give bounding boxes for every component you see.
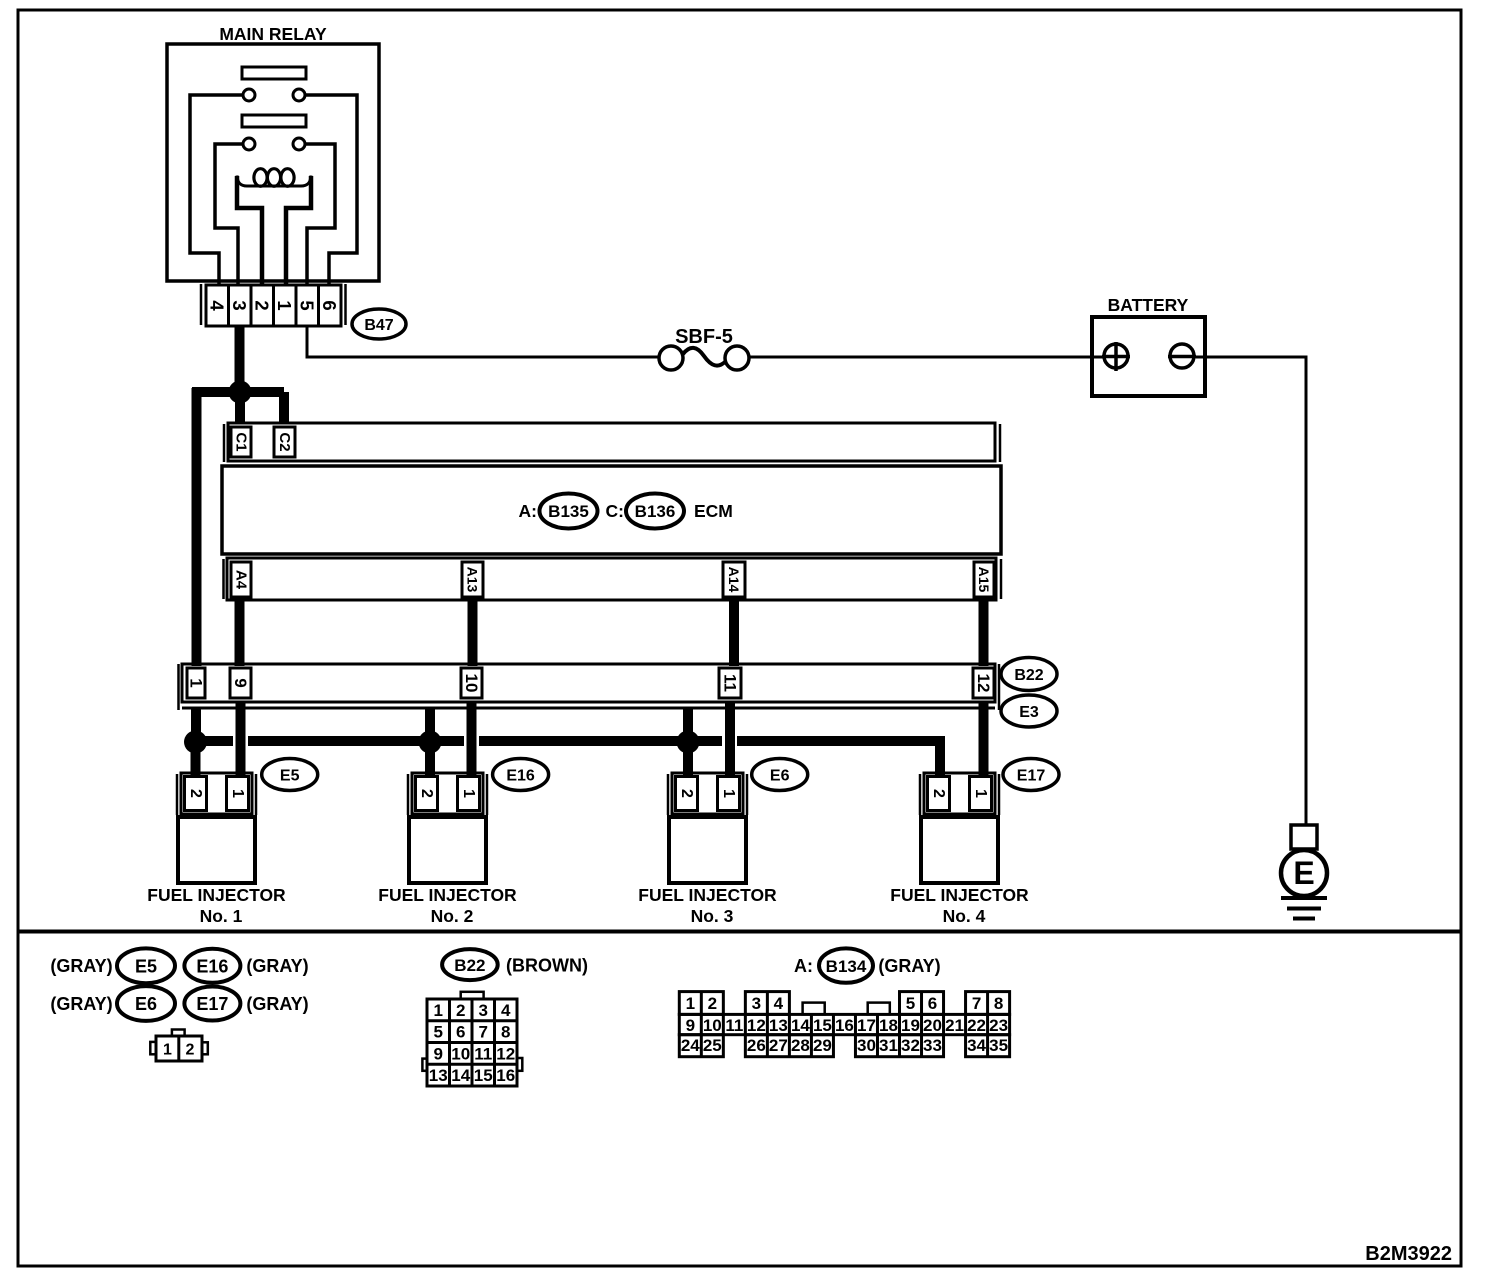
svg-text:31: 31 [879,1036,898,1055]
wire: upper-left contact to pin 4 [190,95,243,285]
svg-text:4: 4 [207,300,228,311]
bus junction node 2 [419,731,442,754]
main relay label [219,24,327,44]
svg-text:17: 17 [857,1016,876,1035]
fuel injector No. 3 label [638,885,777,926]
B22 pin 9 [434,1044,443,1063]
svg-text:E17: E17 [1017,768,1046,785]
svg-text:E3: E3 [1019,704,1039,721]
B134 pin 25 [703,1036,722,1055]
relay pin 6 [319,300,340,310]
fuel injector No. 2 label [378,885,517,926]
svg-text:E16: E16 [196,957,228,977]
B22 pin 4 [501,1001,511,1020]
svg-text:5: 5 [434,1023,443,1042]
svg-text:1: 1 [434,1001,443,1020]
B134 pin 26 [747,1036,766,1055]
svg-text:FUEL INJECTOR: FUEL INJECTOR [147,885,286,905]
svg-text:(GRAY): (GRAY) [246,994,308,1014]
B134 pin 24 [681,1036,700,1055]
legend (GRAY) label row1 right [246,956,308,976]
svg-text:(GRAY): (GRAY) [246,956,308,976]
B134 pin 21 [945,1016,964,1035]
fuel injector No. 3 [668,773,747,883]
B134 pin 11 [725,1016,743,1035]
svg-text:8: 8 [501,1023,510,1042]
B22 pin 2 [456,1001,465,1020]
svg-text:C2: C2 [276,432,293,451]
power bus segment 6 and corner to injector 4 pin 2 [737,741,940,775]
battery [1092,317,1205,396]
wire: lower-right contact to pin 5 [305,144,335,285]
fuel injector No. 1 label [147,885,286,926]
injector 1 pin 1 [229,789,246,798]
svg-text:E5: E5 [135,957,157,977]
svg-text:14: 14 [791,1016,810,1035]
B134 pin 1 [686,994,695,1013]
ground E [1281,825,1327,919]
B134 pin 7 [972,994,981,1013]
thick wire: junction horizontal bar [192,387,284,397]
ECM pin A13 [462,562,483,597]
relay pin 5 [297,300,318,310]
connector E16 label [493,759,549,791]
svg-text:15: 15 [813,1016,832,1035]
svg-text:C1: C1 [233,432,250,451]
thick wire: pin 10 to injector 2 pin 1 [467,702,477,775]
wire: upper-right contact to pin 6 [305,95,357,285]
svg-text:30: 30 [857,1036,876,1055]
connector B22/E3 strip [179,664,1000,710]
svg-text:A:: A: [794,956,813,976]
relay connector B47 pin strip [201,284,346,326]
B22 pin 15 [474,1066,493,1085]
svg-text:16: 16 [835,1016,854,1035]
relay contact bar 1 [242,67,306,79]
injector 2 pin 1 [460,789,477,798]
ECM connector A strip [224,558,1002,600]
B134 pin 15 [813,1016,832,1035]
thick wire: junction left branch down to connector pin 1 [192,388,202,666]
svg-text:A4: A4 [233,570,250,590]
svg-text:No. 4: No. 4 [943,906,986,926]
svg-text:E6: E6 [135,994,157,1014]
svg-text:B47: B47 [364,317,393,334]
connector E16 legend label [184,949,240,983]
B134 pin 10 [703,1016,722,1035]
svg-text:13: 13 [769,1016,788,1035]
injector 4 pin 1 [972,789,989,798]
ECM pin C2 [274,427,295,457]
svg-text:7: 7 [972,994,981,1013]
thick wire: pin 9 to injector 1 pin 1 [236,702,246,775]
svg-text:E5: E5 [280,768,300,785]
B22 pin 3 [479,1001,488,1020]
thick wire: junction to ECM pin C1 [235,392,245,424]
injector 2 pin 2 [418,789,435,798]
B134 pin 13 [769,1016,788,1035]
relay contact bar 2 [242,115,306,127]
thick wire: junction 2 to injector 2 pin 2 [425,750,435,775]
thick wire: A15 to connector pin 12 [979,600,989,666]
svg-text:SBF-5: SBF-5 [675,326,733,348]
svg-text:(BROWN): (BROWN) [506,956,588,976]
legend (GRAY) label row1 left [50,956,112,976]
connector E6 label [752,759,808,791]
svg-text:8: 8 [994,994,1003,1013]
relay coil [237,169,311,187]
svg-text:13: 13 [429,1066,448,1085]
B22 pin 10 [451,1044,470,1063]
svg-text:16: 16 [496,1066,515,1085]
B134 pin 30 [857,1036,876,1055]
B134 pin 34 [967,1036,986,1055]
svg-text:28: 28 [791,1036,810,1055]
B22 pin 11 [474,1044,492,1063]
B134 pin 27 [769,1036,788,1055]
svg-text:15: 15 [474,1066,493,1085]
connector B134 legend label [819,948,873,982]
svg-text:No. 1: No. 1 [200,906,243,926]
ECM label C: [606,501,624,521]
svg-text:34: 34 [967,1036,986,1055]
ECM body [222,466,1001,554]
svg-text:10: 10 [462,674,481,693]
svg-text:27: 27 [769,1036,788,1055]
connector pin 12 [973,668,994,698]
relay contact point (left, upper) [243,89,255,101]
legend divider line [18,930,1461,934]
svg-text:6: 6 [319,300,340,310]
connector pin 10 [461,668,482,698]
svg-text:11: 11 [721,674,740,692]
svg-text:3: 3 [752,994,761,1013]
svg-text:C:: C: [606,501,624,521]
fuel injector No. 4 label [890,885,1029,926]
fuel injector No. 2 [408,773,487,883]
ECM label [694,501,733,521]
svg-text:11: 11 [725,1016,743,1035]
connector E17 legend label [184,987,240,1021]
svg-text:25: 25 [703,1036,722,1055]
svg-text:12: 12 [974,674,993,693]
svg-text:6: 6 [928,994,937,1013]
svg-text:10: 10 [703,1016,722,1035]
svg-text:MAIN RELAY: MAIN RELAY [219,24,327,44]
connector pin 1 [187,668,206,698]
2-pin connector pin 2 [186,1042,195,1059]
connector E3 label [1001,695,1057,727]
svg-text:B135: B135 [548,502,589,521]
svg-text:10: 10 [451,1044,470,1063]
svg-text:1: 1 [187,678,206,687]
svg-text:9: 9 [686,1016,695,1035]
injector 3 pin 1 [720,789,737,798]
wire: relay pin 5 to fuse SBF-5 [307,326,659,357]
B134 pin 17 [857,1016,876,1035]
svg-text:4: 4 [501,1001,511,1020]
svg-text:1: 1 [163,1042,172,1059]
svg-text:24: 24 [681,1036,700,1055]
B134 pin 6 [928,994,937,1013]
svg-text:1: 1 [972,789,989,798]
main relay box [167,44,379,281]
thick wire: A14 to connector pin 11 [729,600,739,666]
power bus segment 2 [248,736,424,746]
B134 pin 2 [708,994,717,1013]
injector 3 pin 2 [678,789,695,798]
2-pin connector pin 1 [163,1042,172,1059]
legend A: label [794,956,813,976]
connector E6 legend label [117,986,175,1021]
fuse SBF-5 [659,346,749,370]
svg-text:FUEL INJECTOR: FUEL INJECTOR [378,885,517,905]
ECM pin A14 [723,562,745,597]
B22 pin 16 [496,1066,515,1085]
relay contact point (right, upper) [293,89,305,101]
svg-text:2: 2 [456,1001,465,1020]
bus junction node 1 [184,731,207,754]
svg-text:2: 2 [930,789,947,798]
B134 pin 3 [752,994,761,1013]
svg-text:2: 2 [252,300,273,310]
svg-text:5: 5 [906,994,915,1013]
legend (GRAY) label row2 left [50,994,112,1014]
relay pin 3 [229,300,250,310]
svg-text:9: 9 [231,678,250,687]
svg-text:1: 1 [720,789,737,798]
svg-text:2: 2 [708,994,717,1013]
B134 pin 12 [747,1016,766,1035]
fuel injector No. 4 [920,773,999,883]
B134 pin 22 [967,1016,986,1035]
B134 pin 29 [813,1036,832,1055]
wire: coil left terminal to pin 2 [237,176,262,285]
thick wire: stub above junction 3 [683,708,693,734]
svg-text:FUEL INJECTOR: FUEL INJECTOR [638,885,777,905]
B22 pin 13 [429,1066,448,1085]
bus junction node 3 [677,731,700,754]
B134 pin 9 [686,1016,695,1035]
B134 pin 28 [791,1036,810,1055]
battery label [1108,295,1189,315]
B134 pin 4 [774,994,784,1013]
svg-text:1: 1 [274,300,295,310]
connector B22 pinout grid [422,992,522,1086]
figure number B2M3922 [1365,1243,1452,1265]
B22 pin 14 [451,1066,470,1085]
svg-text:B136: B136 [635,502,676,521]
svg-text:2: 2 [186,1042,195,1059]
svg-text:E: E [1293,855,1314,891]
B134 pin 20 [923,1016,942,1035]
B134 pin 23 [989,1016,1008,1035]
svg-text:6: 6 [456,1023,465,1042]
wire: battery negative to ground [1196,357,1306,825]
legend (GRAY) label row2 right [246,994,308,1014]
ECM pin A15 [974,562,994,597]
svg-text:9: 9 [434,1044,443,1063]
B134 pin 31 [879,1036,898,1055]
thick wire: pin 12 to injector 4 pin 1 [979,702,989,775]
svg-text:A15: A15 [976,567,992,593]
B22 pin 7 [479,1023,488,1042]
B134 pin 5 [906,994,915,1013]
svg-text:3: 3 [229,300,250,310]
thick wire: A4 to connector pin 9 [235,600,245,666]
relay contact point (left, lower) [243,138,255,150]
svg-text:B2M3922: B2M3922 [1365,1243,1452,1265]
svg-text:1: 1 [460,789,477,798]
ECM pin A4 [231,562,251,597]
svg-text:14: 14 [451,1066,470,1085]
svg-text:ECM: ECM [694,501,733,521]
injector 4 pin 2 [930,789,947,798]
B134 pin 32 [901,1036,920,1055]
svg-text:E6: E6 [770,768,790,785]
svg-text:5: 5 [297,300,318,310]
wire: lower-left contact to pin 3 [215,144,243,285]
ECM pin C1 [231,427,251,457]
svg-text:12: 12 [747,1016,766,1035]
svg-text:2: 2 [187,789,204,798]
connector pin 11 [719,668,741,698]
svg-text:(GRAY): (GRAY) [50,994,112,1014]
svg-text:No. 2: No. 2 [431,906,474,926]
B134 pin 33 [923,1036,942,1055]
svg-text:1: 1 [229,789,246,798]
connector E17 label [1003,759,1059,791]
svg-text:32: 32 [901,1036,920,1055]
svg-text:E16: E16 [506,768,535,785]
svg-text:35: 35 [989,1036,1008,1055]
legend (BROWN) label [506,956,588,976]
svg-text:1: 1 [686,994,695,1013]
connector E5 label [262,759,318,791]
ECM connector B135 label [540,494,598,529]
svg-text:B22: B22 [1014,667,1043,684]
wire: coil right terminal to pin 1 [286,176,311,285]
svg-text:(GRAY): (GRAY) [878,956,940,976]
svg-text:7: 7 [479,1023,488,1042]
connector B47 label [352,309,406,339]
thick wire: pin 1 stub down to bus junction [191,708,201,732]
B22 pin 6 [456,1023,465,1042]
B22 pin 5 [434,1023,443,1042]
connector pin 9 [230,668,251,698]
wire: fuse to battery positive [749,356,1104,359]
B134 pin 8 [994,994,1003,1013]
B134 pin 18 [879,1016,898,1035]
thick wire: junction to ECM pin C2 [279,392,289,424]
B22 pin 12 [496,1044,515,1063]
svg-text:BATTERY: BATTERY [1108,295,1189,315]
power bus segment 1 [202,736,233,746]
legend (GRAY) label for B134 [878,956,940,976]
svg-text:33: 33 [923,1036,942,1055]
svg-text:19: 19 [901,1016,920,1035]
B22 pin 8 [501,1023,510,1042]
connector B22 legend label [442,949,498,980]
power bus segment 4 [479,736,680,746]
svg-text:A:: A: [519,501,537,521]
thick wire: stub above junction 2 [425,708,435,734]
thick wire: A13 to connector pin 10 [468,600,478,666]
svg-text:E17: E17 [196,994,228,1014]
svg-text:B22: B22 [454,956,485,975]
svg-text:No. 3: No. 3 [691,906,734,926]
junction node (power feed) [229,381,252,404]
svg-text:3: 3 [479,1001,488,1020]
relay contact point (right, lower) [293,138,305,150]
svg-text:11: 11 [474,1044,492,1063]
svg-text:A14: A14 [726,567,742,593]
svg-text:21: 21 [945,1016,964,1035]
svg-text:23: 23 [989,1016,1008,1035]
connector E5 legend label [117,948,175,983]
B134 pin 16 [835,1016,854,1035]
relay pin 4 [207,300,228,311]
svg-text:4: 4 [774,994,784,1013]
ECM connector C strip [224,423,1000,462]
B134 pin 35 [989,1036,1008,1055]
B22 pin 1 [434,1001,443,1020]
thick wire: junction 3 to injector 3 pin 2 [683,750,693,775]
svg-text:A13: A13 [465,567,481,593]
B134 pin 14 [791,1016,810,1035]
thick wire: pin 11 to injector 3 pin 1 [725,702,735,775]
svg-text:FUEL INJECTOR: FUEL INJECTOR [890,885,1029,905]
svg-text:26: 26 [747,1036,766,1055]
svg-text:B134: B134 [826,957,867,976]
thick wire: junction 1 to injector 1 pin 2 [191,750,201,775]
fuse SBF-5 label [675,326,733,348]
power bus segment 5 [694,736,722,746]
svg-text:18: 18 [879,1016,898,1035]
thick wire: relay pin 3 down to junction [235,326,245,385]
relay pin 2 [252,300,273,310]
svg-text:29: 29 [813,1036,832,1055]
B134 pin 19 [901,1016,920,1035]
power bus segment 3 [436,736,464,746]
svg-text:(GRAY): (GRAY) [50,956,112,976]
relay pin 1 [274,300,295,310]
connector B134 pinout grid [679,992,1009,1057]
injector 1 pin 2 [187,789,204,798]
ECM connector B136 label [626,494,684,529]
svg-text:2: 2 [418,789,435,798]
svg-text:22: 22 [967,1016,986,1035]
injector connector pinout (2-pin) [150,1030,208,1062]
svg-text:2: 2 [678,789,695,798]
svg-text:12: 12 [496,1044,515,1063]
svg-text:20: 20 [923,1016,942,1035]
fuel injector No. 1 [177,773,256,883]
ECM label A: [519,501,537,521]
connector B22 label [1001,658,1057,691]
